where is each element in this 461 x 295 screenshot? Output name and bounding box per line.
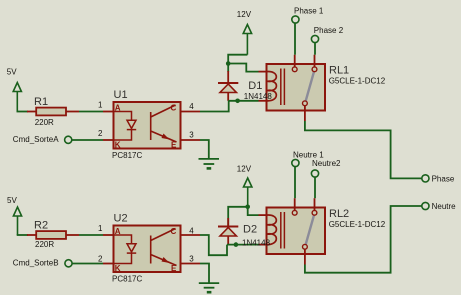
svg-text:1: 1	[98, 224, 103, 233]
junction dot on coil-bottom wire (bottom)	[234, 242, 239, 247]
junction dot on coil-bottom wire	[235, 99, 240, 104]
power 12V (bottom)	[244, 178, 252, 207]
terminal Cmd_SorteA	[13, 135, 103, 144]
svg-text:PC817C: PC817C	[112, 151, 142, 160]
svg-text:220R: 220R	[35, 118, 54, 127]
svg-text:U2: U2	[114, 213, 128, 225]
svg-text:220R: 220R	[35, 240, 54, 249]
pin 3 U1	[181, 139, 200, 141]
RL1 coil bottom pin	[259, 100, 267, 102]
svg-text:D2: D2	[243, 223, 257, 235]
svg-text:2: 2	[98, 255, 103, 264]
svg-text:1N4148: 1N4148	[242, 238, 271, 247]
svg-text:1N4148: 1N4148	[244, 92, 273, 101]
svg-text:5V: 5V	[7, 196, 17, 205]
svg-text:4: 4	[189, 102, 194, 111]
wire 5V to R2	[17, 234, 28, 236]
RL2 contacts	[292, 210, 297, 215]
opto U2 PC817C body	[112, 213, 181, 284]
wire 5V to R1	[17, 111, 29, 113]
wire D2 anode to RL2 coil bottom	[227, 244, 259, 246]
U2 internal phototransistor	[151, 229, 177, 266]
svg-text:U1: U1	[114, 89, 128, 101]
svg-text:PC817C: PC817C	[112, 275, 142, 284]
wire pin3 to ground	[200, 140, 209, 158]
svg-text:K: K	[115, 141, 121, 150]
RL1 coil top pin	[259, 71, 267, 73]
U1 internal LED	[115, 112, 137, 141]
svg-text:RL2: RL2	[329, 208, 349, 220]
wire pin3 to ground	[200, 264, 209, 283]
svg-text:C: C	[171, 227, 177, 236]
RL2 coil bottom pin	[259, 244, 267, 246]
resistor R2	[27, 220, 79, 250]
svg-text:4: 4	[189, 226, 194, 235]
relay RL1 G5CLE-1-DC12	[267, 55, 386, 121]
U1 internal phototransistor	[151, 105, 177, 142]
terminal Neutre 1	[292, 150, 324, 198]
svg-text:Neutre: Neutre	[432, 202, 457, 211]
RL2 coil top pin	[259, 214, 267, 216]
wire RL2 common to Neutre output	[305, 206, 422, 273]
svg-text:D1: D1	[248, 80, 262, 92]
svg-text:Cmd_SorteB: Cmd_SorteB	[13, 259, 59, 268]
svg-text:RL1: RL1	[329, 65, 349, 77]
junction node (12V / D2 / coil, bottom)	[245, 205, 250, 210]
RL1 contacts	[292, 67, 297, 72]
svg-text:3: 3	[189, 254, 194, 263]
ground (U2)	[199, 283, 219, 292]
op-to U1 PC817C body	[112, 89, 181, 160]
pin 2 U1	[103, 139, 113, 141]
terminal Phase 2	[311, 26, 343, 55]
pin 4 U2	[181, 234, 200, 236]
wire R1 to U1 pin1	[79, 111, 103, 113]
power 5V (bottom)	[13, 207, 21, 235]
U2 internal LED	[115, 235, 137, 264]
resistor R1	[27, 96, 79, 127]
pin 2 U2	[103, 263, 113, 265]
RL1 coil	[267, 72, 277, 101]
pin 1 U1	[103, 111, 113, 113]
pin 3 U2	[181, 263, 200, 265]
svg-text:K: K	[115, 264, 121, 273]
ground (U1)	[199, 159, 220, 169]
wire D1 anode to RL1 coil bottom	[228, 100, 258, 102]
wire pin4 to D2 anode node (jog)	[200, 235, 227, 255]
diode D1 1N4148	[218, 71, 238, 101]
terminal Neutre (output)	[422, 202, 456, 211]
svg-text:12V: 12V	[237, 10, 252, 19]
svg-text:5V: 5V	[7, 68, 17, 77]
svg-text:Cmd_SorteA: Cmd_SorteA	[13, 135, 59, 144]
RL1 core bars	[280, 69, 282, 106]
svg-text:R2: R2	[34, 220, 48, 232]
terminal Neutre2	[311, 159, 341, 198]
diode D2 1N4148	[218, 218, 238, 245]
RL2 pins to contacts	[294, 198, 296, 210]
pin 1 U2	[103, 234, 113, 236]
junction node (12V / D1 / coil, top)	[226, 61, 231, 66]
svg-text:R1: R1	[34, 96, 48, 108]
wire RL1 common to Phase output	[305, 121, 422, 178]
terminal Cmd_SorteB	[13, 259, 103, 268]
svg-text:Phase: Phase	[432, 175, 455, 184]
svg-text:1: 1	[98, 101, 103, 110]
svg-text:12V: 12V	[237, 165, 252, 174]
svg-text:2: 2	[98, 129, 103, 138]
RL1 switch arm	[306, 72, 314, 101]
pin 4 U1	[181, 111, 200, 113]
wire pin4 to D1 anode node	[200, 101, 229, 112]
svg-text:Phase 1: Phase 1	[294, 6, 324, 15]
RL2 core bars	[280, 212, 282, 249]
svg-text:Neutre2: Neutre2	[312, 159, 341, 168]
relay RL2 G5CLE-1-DC12	[267, 198, 386, 264]
power 12V (top)	[243, 25, 251, 55]
wire 12V to node (top)	[228, 55, 247, 72]
svg-text:G5CLE-1-DC12: G5CLE-1-DC12	[329, 77, 386, 86]
wire node to D2 cathode	[228, 207, 248, 226]
wire R2 to U2 pin1	[79, 234, 103, 236]
svg-text:G5CLE-1-DC12: G5CLE-1-DC12	[329, 220, 386, 229]
wire node to RL1 coil top	[228, 64, 258, 72]
terminal Phase (output)	[422, 175, 455, 184]
RL2 switch arm	[306, 216, 314, 245]
svg-text:C: C	[171, 104, 177, 113]
power 5V (top)	[13, 83, 21, 112]
RL1 pins to contacts	[294, 55, 296, 67]
svg-text:3: 3	[189, 131, 194, 140]
terminal Phase 1	[292, 6, 324, 54]
svg-text:Phase 2: Phase 2	[314, 26, 344, 35]
RL2 coil	[267, 215, 277, 245]
wire node to RL2 coil top	[248, 207, 259, 215]
